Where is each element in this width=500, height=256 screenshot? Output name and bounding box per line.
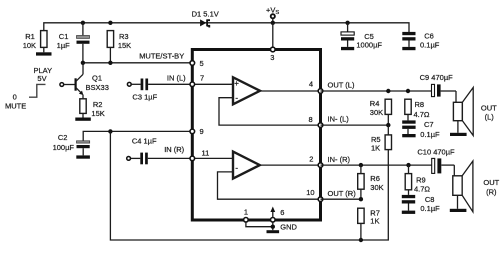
- wire OUT (L) net: [321, 81, 432, 94]
- capacitor C6: [402, 32, 439, 51]
- pin 4: [309, 80, 323, 94]
- svg-text:R1: R1: [25, 32, 35, 41]
- resistor R3: [107, 21, 131, 63]
- svg-text:OUT: OUT: [483, 178, 499, 187]
- svg-text:1K: 1K: [371, 143, 380, 152]
- svg-text:-: -: [235, 162, 238, 172]
- pin 7: [190, 74, 204, 87]
- svg-text:Q1: Q1: [92, 73, 102, 82]
- wire top supply rail: [44, 23, 409, 32]
- speaker OUT (L): [450, 88, 497, 137]
- capacitor C9: [420, 73, 456, 97]
- capacitor C2: [53, 129, 191, 159]
- pin 1: [244, 208, 249, 223]
- svg-text:R8: R8: [415, 100, 425, 109]
- svg-text:1: 1: [244, 208, 248, 217]
- svg-text:100µF: 100µF: [53, 143, 75, 152]
- zener diode D1: [192, 9, 219, 27]
- capacitor C5: [341, 23, 382, 50]
- svg-text:4: 4: [309, 80, 313, 89]
- svg-text:C3 1µF: C3 1µF: [132, 93, 157, 102]
- resistor R1: [23, 31, 52, 56]
- svg-text:0.1µF: 0.1µF: [420, 204, 440, 213]
- svg-text:2: 2: [309, 154, 313, 163]
- svg-text:GND: GND: [280, 223, 297, 232]
- svg-text:10: 10: [306, 188, 314, 197]
- pin 9: [190, 127, 204, 136]
- svg-text:4.7Ω: 4.7Ω: [414, 110, 430, 119]
- svg-text:R9: R9: [416, 175, 426, 184]
- wire IN- (R) net: [321, 155, 432, 167]
- pin 5: [190, 59, 204, 68]
- wire A2 feedback to pin 10: [218, 172, 321, 199]
- svg-text:15K: 15K: [118, 41, 131, 50]
- svg-text:C2: C2: [58, 133, 68, 142]
- svg-text:MUTE/ST-BY: MUTE/ST-BY: [139, 51, 184, 60]
- svg-text:30K: 30K: [370, 183, 383, 192]
- svg-text:1µF: 1µF: [57, 41, 70, 50]
- wire SVR bottom rail: [110, 131, 388, 242]
- svg-text:C6: C6: [424, 32, 434, 41]
- pin 11: [190, 149, 209, 161]
- capacitor C10: [417, 147, 455, 173]
- svg-text:C10 470µF: C10 470µF: [417, 147, 455, 156]
- resistor R5: [371, 125, 392, 152]
- svg-text:C1: C1: [59, 32, 69, 41]
- svg-text:C8: C8: [425, 195, 435, 204]
- svg-text:-: -: [235, 92, 238, 102]
- svg-text:(L): (L): [485, 113, 495, 122]
- wire IN- (L) net: [321, 115, 391, 128]
- capacitor C3: [127, 74, 190, 102]
- svg-text:10K: 10K: [23, 41, 36, 50]
- capacitor C4: [127, 137, 191, 165]
- svg-text:OUT (L): OUT (L): [328, 81, 355, 90]
- svg-text:R2: R2: [93, 100, 103, 109]
- annotation PLAY/MUTE step waveform: [5, 66, 52, 111]
- svg-text:5V: 5V: [37, 74, 46, 83]
- capacitor C1: [57, 21, 90, 63]
- svg-text:IN- (R): IN- (R): [328, 155, 351, 164]
- svg-text:(R): (R): [486, 188, 497, 197]
- resistor R7: [358, 208, 380, 240]
- capacitor C8: [402, 195, 440, 214]
- svg-text:3: 3: [270, 53, 274, 62]
- pin 6: [271, 208, 285, 222]
- wire A2 output to pin 2: [260, 164, 321, 166]
- wire A1 feedback to pin 8: [219, 98, 321, 125]
- svg-text:15K: 15K: [91, 109, 104, 118]
- svg-text:7: 7: [200, 74, 204, 83]
- svg-text:OUT (R): OUT (R): [328, 189, 357, 198]
- svg-text:6: 6: [280, 208, 284, 217]
- svg-text:1K: 1K: [370, 217, 379, 226]
- svg-text:+: +: [234, 79, 239, 88]
- pin 10: [306, 188, 323, 201]
- ground GND net: [246, 222, 298, 233]
- svg-text:IN- (L): IN- (L): [328, 115, 350, 124]
- svg-text:R3: R3: [119, 32, 129, 41]
- svg-text:1000µF: 1000µF: [356, 41, 382, 50]
- resistor R9: [405, 165, 430, 195]
- resistor R2: [75, 99, 104, 121]
- svg-text:11: 11: [202, 149, 210, 158]
- svg-text:OUT: OUT: [481, 104, 497, 113]
- wire OUT (R) net: [321, 189, 364, 202]
- node +Vs supply terminal: [266, 6, 279, 48]
- capacitor C7: [402, 120, 440, 139]
- svg-text:5: 5: [200, 59, 204, 68]
- svg-text:C9 470µF: C9 470µF: [420, 73, 454, 82]
- svg-text:IN (R): IN (R): [164, 145, 184, 154]
- resistor R6: [358, 165, 384, 199]
- wire A1 output to pin 4: [260, 90, 321, 92]
- IC power amplifier body: [192, 50, 320, 221]
- pin 3: [270, 47, 275, 62]
- svg-text:C7: C7: [424, 120, 434, 129]
- pin 2: [309, 154, 323, 167]
- op-amp A1 (left channel): [192, 77, 260, 104]
- svg-text:0.1µF: 0.1µF: [420, 130, 440, 139]
- arrow pin 6 internal: [270, 207, 275, 218]
- node junction C5: [345, 21, 349, 25]
- svg-text:IN (L): IN (L): [167, 74, 186, 83]
- svg-text:9: 9: [200, 127, 204, 136]
- svg-text:8: 8: [309, 115, 313, 124]
- resistor R4: [370, 99, 392, 125]
- speaker OUT (R): [450, 161, 500, 212]
- svg-text:D1 5.1V: D1 5.1V: [192, 9, 219, 18]
- svg-text:0: 0: [13, 92, 17, 101]
- svg-text:R4: R4: [370, 99, 380, 108]
- svg-text:BSX33: BSX33: [86, 83, 109, 92]
- svg-text:30K: 30K: [370, 108, 383, 117]
- transistor Q1: [60, 63, 109, 99]
- wire MUTE/ST-BY net: [81, 51, 191, 65]
- resistor R8: [405, 99, 430, 120]
- svg-text:4.7Ω: 4.7Ω: [414, 184, 430, 193]
- svg-text:0.1µF: 0.1µF: [420, 41, 440, 50]
- svg-text:R6: R6: [370, 174, 380, 183]
- pin 8: [309, 115, 323, 127]
- svg-text:MUTE: MUTE: [5, 101, 26, 110]
- op-amp A2 (right channel): [192, 152, 259, 179]
- svg-text:C4 1µF: C4 1µF: [132, 137, 157, 146]
